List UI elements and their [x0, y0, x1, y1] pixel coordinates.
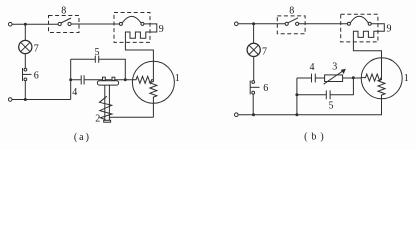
switch S8a contacts and blade [58, 18, 71, 26]
centrifugal switch 2a contact squares [103, 77, 115, 80]
wire (b) left riser [296, 78, 298, 115]
thermal protector 9a dashed enclosure [114, 13, 150, 43]
terminal (b) bottom-left [235, 113, 239, 117]
protector 9a heater element and lead to motor [125, 24, 156, 80]
svg-text:6: 6 [263, 83, 268, 94]
terminal (a) bottom-left [8, 98, 12, 102]
terminal (a) top-left [8, 22, 12, 26]
node junction (b) bottom rail at riser [295, 113, 298, 116]
button 6b [250, 81, 259, 95]
protector 9b heater element and lead to motor [353, 24, 384, 78]
thermal protector 9b dashed enclosure [341, 14, 378, 42]
wire (b) thermistor to motor [343, 77, 362, 79]
wire (a) lamp to button [24, 54, 26, 68]
svg-text:(b): (b) [304, 132, 328, 143]
capacitor 4b plates [312, 74, 316, 83]
svg-text:(a): (a) [74, 132, 91, 143]
svg-text:3: 3 [332, 62, 337, 73]
centrifugal switch 2a plunger [104, 85, 111, 122]
capacitor 5a plates [95, 56, 98, 63]
node junction (a) lower branch left [69, 78, 72, 81]
motor 1a body circle [132, 61, 174, 103]
lamp 7a [19, 24, 32, 53]
PTC thermistor 3b body [325, 75, 343, 82]
svg-text:4: 4 [72, 87, 77, 98]
wire (b) bottom rail and motor bottom lead [238, 99, 381, 115]
svg-text:5: 5 [329, 101, 334, 112]
node junction (b) top branch right [352, 76, 355, 79]
wire (b) button to bottom rail [252, 94, 254, 115]
protector 9b bimetal contacts and arc [347, 16, 371, 25]
switch S8b contacts and blade [285, 18, 299, 26]
svg-text:8: 8 [61, 6, 66, 17]
wire (a) button to bottom rail [24, 81, 26, 100]
node junction (b) lower branch left [295, 93, 298, 96]
svg-text:7: 7 [262, 46, 267, 57]
node junction (a) top rail [24, 23, 27, 26]
button 6a [23, 68, 32, 81]
protector 9a bimetal contacts and arc [119, 16, 143, 25]
svg-text:6: 6 [34, 70, 39, 81]
capacitor 5b plates [326, 90, 330, 99]
wire (a) top rail [12, 23, 58, 25]
wire (a) switch 2 to motor bottom [109, 116, 153, 118]
svg-text:1: 1 [175, 73, 180, 84]
svg-text:5: 5 [95, 47, 100, 58]
PTC thermistor 3b arrow [324, 69, 345, 84]
wire (b) top rail [238, 23, 285, 25]
svg-text:4: 4 [310, 62, 315, 73]
node junction (a) bottom rail [24, 98, 27, 101]
node junction (b) bottom rail at button [252, 113, 255, 116]
capacitor 5a top branch wire [71, 59, 126, 80]
switch S8b dashed enclosure [277, 16, 305, 34]
node junction (a) motor left [124, 78, 127, 81]
svg-text:9: 9 [387, 24, 392, 35]
centrifugal switch 2a spring [99, 96, 112, 119]
motor 1b start winding lead [378, 78, 385, 99]
lamp 7b [247, 24, 260, 57]
svg-text:8: 8 [289, 6, 294, 17]
wire (a) switch to protector [71, 23, 119, 25]
wire (b) switch to protector [299, 23, 348, 25]
motor 1b body circle [361, 58, 402, 99]
wire (b) lamp to button [253, 57, 255, 81]
motor 1a start winding and bottom lead [150, 80, 157, 117]
svg-text:9: 9 [159, 24, 164, 35]
starting capacitor (a) plates [81, 75, 84, 84]
capacitor 5b lower branch wire [297, 78, 354, 95]
terminal (b) top-left [235, 22, 239, 26]
svg-text:2: 2 [95, 113, 100, 124]
switch S8a dashed enclosure [49, 16, 80, 33]
centrifugal switch 2a contact bar [97, 81, 118, 85]
capacitor 4b wire top branch [297, 77, 325, 79]
svg-text:1: 1 [404, 73, 409, 84]
node junction (b) top rail [252, 22, 255, 25]
svg-text:7: 7 [34, 43, 39, 54]
wire (a) bottom rail [12, 99, 71, 101]
motor 1a main winding [125, 76, 153, 83]
motor 1b main winding [361, 74, 381, 81]
node 4 riser wire [70, 59, 72, 99]
starting capacitor (a) lower branch wire [71, 79, 126, 81]
